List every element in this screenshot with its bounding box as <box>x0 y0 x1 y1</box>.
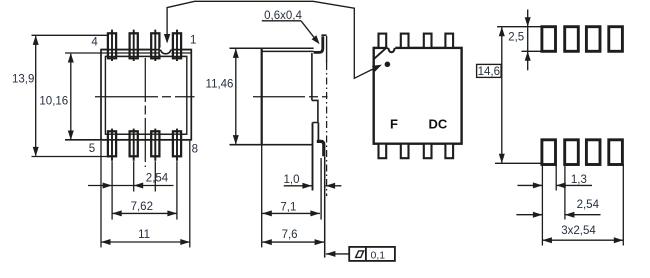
figure 3 top pin 3 <box>424 34 432 48</box>
land pattern top pad 3 <box>586 27 600 52</box>
svg-text:2,54: 2,54 <box>577 199 600 211</box>
svg-text:3x2,54: 3x2,54 <box>561 225 596 237</box>
leader arrowhead at figure 1 notch <box>164 34 170 44</box>
figure 1 bottom pin 6 body <box>130 131 138 156</box>
dimension 14,6 line with arrows <box>501 28 503 163</box>
svg-text:7,62: 7,62 <box>131 201 153 213</box>
land pattern bottom pad 7 <box>586 140 600 165</box>
figure 1 bottom pin 7 body <box>151 131 159 156</box>
svg-text:1,0: 1,0 <box>284 174 300 186</box>
figure 1 bottom pin 8 body <box>173 131 181 156</box>
svg-text:DC: DC <box>429 116 448 131</box>
label 0,6x0,4 leader line <box>301 21 317 42</box>
svg-text:13,9: 13,9 <box>12 73 34 85</box>
dimension 2,5 extension line top <box>497 26 542 28</box>
figure 1 top pin 3 body <box>130 33 138 58</box>
figure 1 body left extension line <box>100 141 102 248</box>
dimension 2,5 lower arrow <box>527 52 529 70</box>
figure 2 lead right edge solid <box>326 36 328 63</box>
figure 2 upper lead bend (thick) <box>314 36 323 52</box>
figure 2 left extension line down <box>261 145 263 248</box>
figure 2: side view top edge <box>230 47 314 49</box>
figure 1 rim line (10,16 top extension) <box>65 52 191 54</box>
dimension 13,9 extension line top <box>32 34 108 36</box>
flatness feature control frame <box>349 247 395 261</box>
figure 1 bottom pin 8 centerline <box>176 129 178 161</box>
dimension 14,6 boxed text <box>477 64 502 77</box>
dimension 1,0 right arrow <box>326 185 342 187</box>
figure 2 body left edge <box>261 48 263 145</box>
svg-text:2,54: 2,54 <box>146 173 169 185</box>
dimension 13,9 extension line bottom <box>32 156 108 158</box>
dimension 2,5 extension line bottom <box>522 50 542 52</box>
dimension 11,46 line with arrows <box>235 49 237 144</box>
figure 3 pin 1 marker dot <box>385 62 391 68</box>
figure 1 top pin 3 centerline <box>133 30 135 61</box>
figure 1 bottom edge overlay (10,16 extension) <box>65 139 191 141</box>
svg-text:2,5: 2,5 <box>508 31 524 43</box>
figure 1 pin 5 extension line <box>111 161 113 219</box>
figure 1: package top view body outline <box>101 50 191 140</box>
dimension 3x2,54 line with arrows <box>542 239 623 241</box>
figure 3 top pin 4 <box>445 34 453 48</box>
dimension 1,0 left arrow <box>284 185 312 187</box>
flatness parallelogram symbol <box>356 251 364 258</box>
land pattern bottom pad 8 <box>609 140 623 165</box>
dimension 11 line with arrows <box>101 241 190 243</box>
figure 2 horizontal centerline <box>253 96 328 98</box>
figure 2 lead outer edge lower <box>317 123 319 141</box>
dimension 14,6 extension line bottom <box>495 162 542 164</box>
figure 1 body right extension line <box>189 141 191 248</box>
dimension 1,3 right arrow <box>556 184 592 186</box>
figure 1 top pin 1 body <box>173 33 181 58</box>
land pattern bottom pad 5 <box>542 140 556 165</box>
land pattern bottom pad 6 <box>565 140 579 165</box>
dimension 10,16 line with arrows <box>70 54 72 139</box>
figure 3 top notch <box>388 46 396 52</box>
figure 3 top pin 1 <box>379 34 387 48</box>
svg-text:10,16: 10,16 <box>39 95 68 107</box>
figure 1 bottom pin 5 centerline <box>111 129 113 161</box>
figure 2 second top edge <box>261 50 314 52</box>
figure 3 top pin 2 <box>401 34 409 48</box>
land pattern pad4 right extension line <box>622 164 624 246</box>
figure 2 right edge step <box>312 100 318 122</box>
label 0,6x0,4 underline <box>262 20 301 22</box>
dimension 13,9 line with arrows <box>35 36 37 155</box>
svg-text:1: 1 <box>190 34 196 46</box>
figure 1 pin 7 extension line <box>154 161 156 191</box>
svg-text:F: F <box>390 116 398 131</box>
figure 2 extension line for 7,1 <box>320 158 322 220</box>
dimension 2,54 arrows <box>103 183 113 189</box>
figure 1 top pin 4 body <box>108 33 116 58</box>
figure 1 pin1 index notch on top edge <box>160 48 172 55</box>
land pattern pad1 left extension line <box>541 164 543 246</box>
svg-text:11,46: 11,46 <box>206 78 234 90</box>
dimension 2,54 right arrow <box>565 214 601 216</box>
land pattern top pad 4 <box>609 27 623 52</box>
dimension 2,54 left arrow <box>516 214 542 216</box>
svg-text:1,3: 1,3 <box>571 174 587 186</box>
dimension 2,5 line through <box>527 27 529 52</box>
svg-text:7,6: 7,6 <box>282 229 298 241</box>
figure 1 bottom pin 7 centerline <box>154 129 156 161</box>
figure 1 inner bottom edge overlay <box>105 133 186 135</box>
figure 1 top pin 1 centerline <box>176 30 178 61</box>
figure 2 body right edge <box>311 53 313 100</box>
leader arrowhead at figure 3 dot <box>372 65 382 72</box>
dimension 7,6 line with arrows <box>262 241 324 243</box>
figure 1 bottom pin 5 body <box>108 131 116 156</box>
figure 1 top pin 4 centerline <box>111 30 113 61</box>
land pattern pad1 right extension line <box>555 164 557 191</box>
figure 3: package front view body <box>374 48 462 144</box>
figure 2 lead tip extension line <box>324 156 326 257</box>
flatness leader line <box>326 253 349 255</box>
figure 1 top pin 2 body <box>151 33 159 58</box>
dimension 1,3 left arrow <box>518 184 543 186</box>
figure 3 bottom pin 5 <box>379 144 387 159</box>
dimension 7,62 line with arrows <box>112 212 177 214</box>
figure 1 top edge overlay <box>101 49 191 51</box>
figure 2 lead tip cap <box>321 34 326 36</box>
dimension 2,5 upper arrow <box>527 10 529 27</box>
dimension 2,54 line <box>88 185 174 187</box>
svg-text:0,1: 0,1 <box>370 249 385 261</box>
figure 3 bottom pin 8 <box>445 144 453 159</box>
figure 3 bottom pin 7 <box>424 144 432 159</box>
figure 1 body inner outline <box>105 56 186 134</box>
figure 1 pin 6 extension line <box>133 161 135 191</box>
figure 2 lead inner edge lower <box>312 123 314 191</box>
figure 2 lower lead bend (thick) <box>317 141 324 156</box>
figure 2 body bottom edge <box>230 144 313 146</box>
figure 3 bottom pin 6 <box>401 144 409 159</box>
land pattern top pad 1 <box>542 27 556 52</box>
svg-text:11: 11 <box>138 229 150 241</box>
figure 1 vertical centerline <box>144 58 146 167</box>
figure 1 top pin 2 centerline <box>154 30 156 61</box>
land pattern top pad 2 <box>565 27 579 52</box>
svg-text:7,1: 7,1 <box>280 201 296 213</box>
figure 3 corner chamfer <box>374 48 386 59</box>
land pattern pad2 left extension line <box>564 164 566 220</box>
svg-text:8: 8 <box>192 144 198 156</box>
figure 1 bottom pin 6 centerline <box>133 129 135 161</box>
figure 1 pin 8 extension line <box>176 161 178 219</box>
svg-text:5: 5 <box>89 143 95 155</box>
dimension 7,1 line with arrows <box>262 212 320 214</box>
leader polyline notch to pin1 marker <box>167 1 375 78</box>
svg-text:4: 4 <box>91 36 98 48</box>
svg-text:14,6: 14,6 <box>478 66 500 78</box>
figure 2 lead right edge dash-dot <box>326 63 328 196</box>
figure 1 inner top edge overlay <box>105 55 186 57</box>
figure 1 horizontal centerline <box>95 96 195 98</box>
